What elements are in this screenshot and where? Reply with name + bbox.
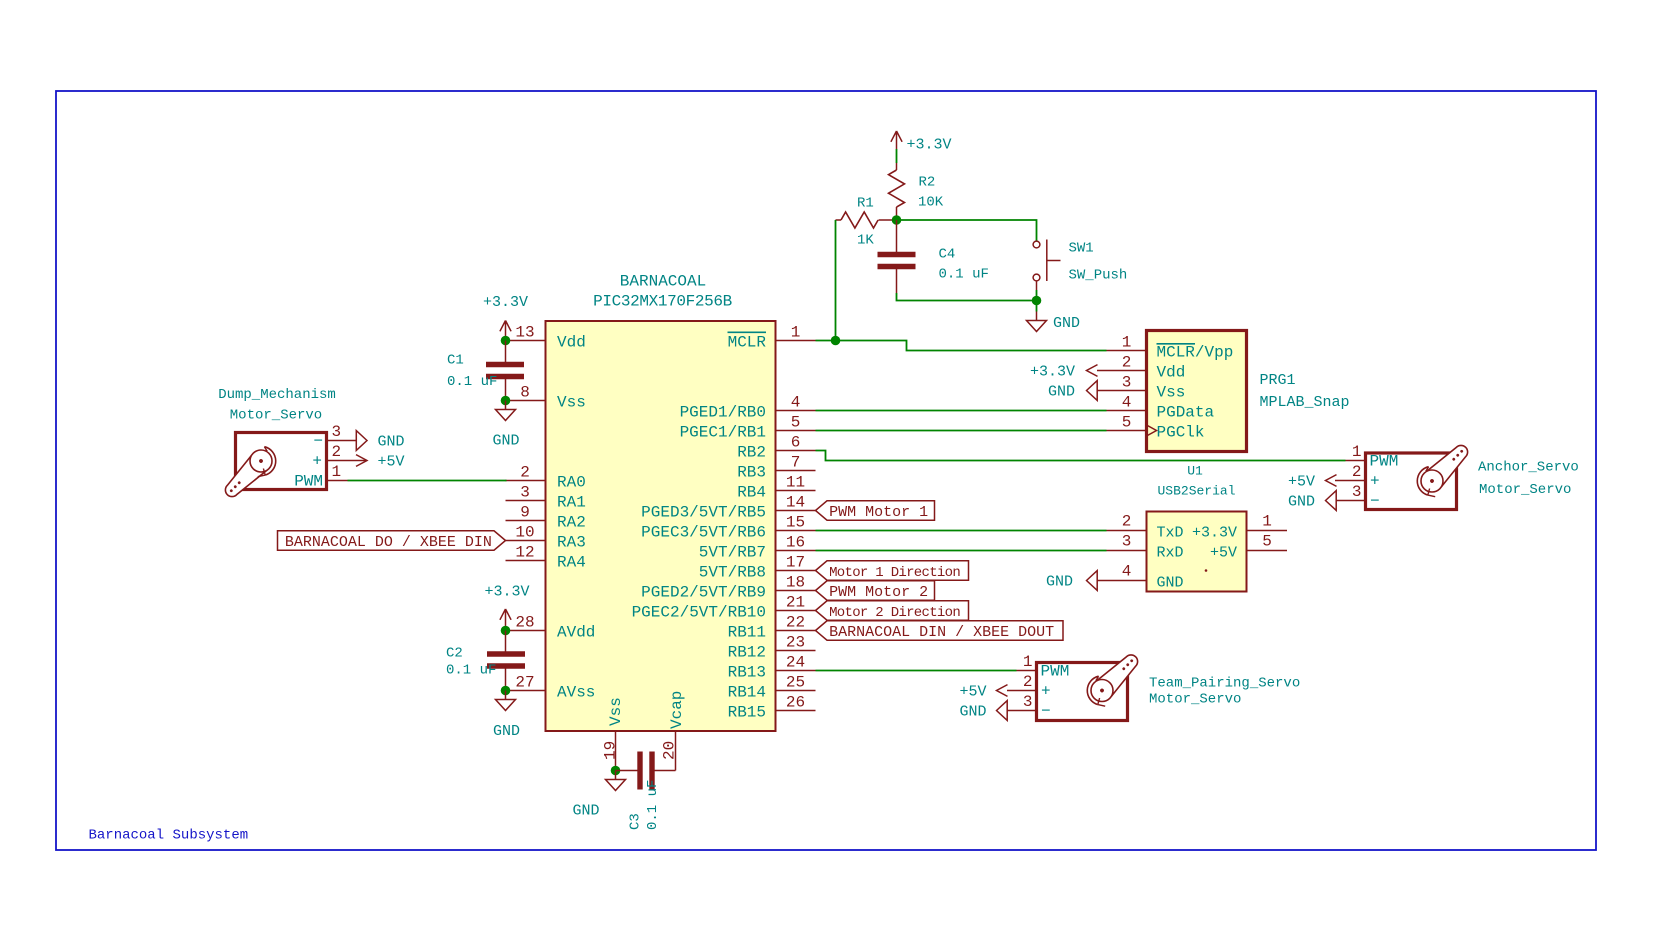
svg-text:PGData: PGData	[1157, 404, 1215, 422]
U1 pin 1 +3.3V	[1247, 530, 1287, 532]
svg-text:Team_Pairing_Servo: Team_Pairing_Servo	[1149, 676, 1300, 692]
svg-text:GND: GND	[572, 803, 599, 820]
svg-text:RB2: RB2	[737, 444, 766, 462]
svg-text:+5V: +5V	[378, 454, 405, 471]
svg-text:+3.3V: +3.3V	[907, 137, 952, 154]
svg-text:GND: GND	[1288, 494, 1315, 511]
capacitor C4 0.1uF	[896, 220, 898, 254]
svg-text:Vss: Vss	[607, 697, 625, 726]
svg-text:Anchor_Servo: Anchor_Servo	[1478, 460, 1579, 476]
hierarchical label PWM Motor 2	[816, 581, 935, 601]
pin 24 RB13	[776, 670, 816, 672]
svg-text:BARNACOAL: BARNACOAL	[620, 273, 706, 291]
svg-text:5: 5	[791, 414, 801, 432]
wire RB6 to TxD	[816, 530, 1107, 532]
svg-text:RB3: RB3	[737, 464, 766, 482]
svg-text:GND: GND	[959, 704, 986, 721]
svg-text:1: 1	[1262, 513, 1272, 531]
wire RB0 to PGData	[816, 410, 1107, 412]
connector PRG1 MPLAB_Snap body	[1147, 331, 1247, 452]
hierarchical label PWM Motor 1	[816, 501, 935, 521]
svg-text:−: −	[1041, 703, 1051, 721]
pin 28 AVdd	[506, 630, 546, 632]
svg-text:23: 23	[786, 634, 805, 652]
svg-text:C4: C4	[939, 247, 956, 263]
svg-text:GND: GND	[493, 723, 520, 740]
svg-text:11: 11	[786, 474, 805, 492]
svg-text:RB12: RB12	[728, 644, 766, 662]
svg-text:GND: GND	[1048, 384, 1075, 401]
pin 23 RB12	[776, 650, 816, 652]
svg-text:22: 22	[786, 614, 805, 632]
svg-text:3: 3	[520, 484, 530, 502]
svg-text:28: 28	[515, 614, 534, 632]
pin 16 5VT/RB7	[776, 550, 816, 552]
svg-text:3: 3	[1352, 483, 1362, 501]
pin 1 MCLR overbar	[728, 331, 767, 333]
U1 pin 3 RxD	[1107, 550, 1147, 552]
svg-text:Motor 2 Direction: Motor 2 Direction	[829, 605, 960, 621]
svg-text:RA2: RA2	[557, 514, 586, 532]
pin 20 Vcap (bottom)	[675, 731, 677, 771]
svg-text:Motor_Servo: Motor_Servo	[1149, 692, 1241, 708]
pin 3 - GND	[327, 440, 357, 442]
power flag +3.3V (R2)	[891, 131, 902, 149]
svg-text:PGClk: PGClk	[1157, 424, 1205, 442]
hierarchical label BARNACOAL DIN / XBEE DOUT	[816, 621, 1064, 641]
pin 12 RA4	[506, 560, 546, 562]
pin 9 RA2	[506, 520, 546, 522]
U1 pin 5 +5V	[1247, 550, 1287, 552]
svg-text:24: 24	[786, 654, 805, 672]
pin 8 Vss	[506, 400, 546, 402]
pin 1 MCLR	[776, 340, 816, 342]
svg-text:0.1 uF: 0.1 uF	[446, 663, 496, 679]
svg-text:Barnacoal Subsystem: Barnacoal Subsystem	[89, 828, 249, 844]
svg-text:R1: R1	[857, 196, 874, 212]
junction	[501, 336, 511, 346]
svg-text:17: 17	[786, 554, 805, 572]
svg-text:5: 5	[1262, 533, 1272, 551]
svg-text:2: 2	[1352, 463, 1362, 481]
svg-text:MCLR/Vpp: MCLR/Vpp	[1157, 344, 1234, 362]
junction	[892, 215, 902, 225]
wire	[505, 627, 507, 631]
svg-text:26: 26	[786, 694, 805, 712]
svg-text:RB15: RB15	[728, 704, 766, 722]
svg-text:USB2Serial: USB2Serial	[1157, 484, 1235, 499]
svg-text:3: 3	[1023, 693, 1033, 711]
svg-text:RA0: RA0	[557, 474, 586, 492]
junction	[501, 396, 511, 406]
svg-text:+3.3V: +3.3V	[1192, 525, 1237, 542]
svg-text:2: 2	[1023, 673, 1033, 691]
pin 22 RB11	[776, 630, 816, 632]
svg-text:PIC32MX170F256B: PIC32MX170F256B	[593, 293, 732, 311]
svg-text:1K: 1K	[857, 233, 874, 249]
wire node to SW1	[897, 220, 1037, 241]
svg-text:10: 10	[515, 524, 534, 542]
svg-text:3: 3	[1122, 374, 1132, 392]
PRG1 MCLR overbar	[1157, 343, 1196, 345]
svg-text:5: 5	[1122, 414, 1132, 432]
pin 7 RB3	[776, 470, 816, 472]
svg-text:PGED3/5VT/RB5: PGED3/5VT/RB5	[641, 504, 766, 522]
svg-text:RB13: RB13	[728, 664, 766, 682]
Team pin 2 + +5V	[1007, 690, 1037, 692]
pin 14 PGED3/5VT/RB5	[776, 510, 816, 512]
svg-text:SW_Push: SW_Push	[1069, 268, 1128, 284]
svg-text:PGED2/5VT/RB9: PGED2/5VT/RB9	[641, 584, 766, 602]
resistor R2 10K	[896, 163, 898, 170]
svg-text:5VT/RB8: 5VT/RB8	[699, 564, 766, 582]
ground (C3)	[606, 771, 626, 791]
svg-text:0.1 uF: 0.1 uF	[447, 374, 497, 390]
U1 pin 2 TxD	[1107, 530, 1147, 532]
svg-text:RB4: RB4	[737, 484, 766, 502]
svg-text:2: 2	[520, 464, 530, 482]
pin 2 RA0	[506, 480, 546, 482]
svg-text:MPLAB_Snap: MPLAB_Snap	[1260, 394, 1350, 411]
PRG1 pin 2 Vdd	[1097, 370, 1147, 372]
svg-text:Dump_Mechanism: Dump_Mechanism	[218, 387, 336, 403]
svg-text:C1: C1	[447, 353, 464, 369]
svg-text:10K: 10K	[918, 195, 944, 211]
junction	[501, 686, 511, 696]
svg-text:RB14: RB14	[728, 684, 766, 702]
svg-text:GND: GND	[492, 433, 519, 450]
svg-text:Vcap: Vcap	[668, 691, 686, 729]
svg-text:16: 16	[786, 534, 805, 552]
svg-text:1: 1	[1122, 334, 1132, 352]
ground (C1)	[496, 401, 516, 421]
svg-text:18: 18	[786, 574, 805, 592]
svg-text:MCLR: MCLR	[728, 334, 767, 352]
svg-text:GND: GND	[1046, 574, 1073, 591]
svg-text:6: 6	[791, 434, 801, 452]
pin 18 PGED2/5VT/RB9	[776, 590, 816, 592]
resistor R1 1K	[836, 219, 842, 221]
wire RB13 to Team_Pairing_Servo PWM	[816, 670, 1017, 672]
svg-text:GND: GND	[378, 434, 405, 451]
svg-text:0.1 uF: 0.1 uF	[939, 267, 989, 283]
capacitor C2	[505, 631, 507, 655]
pin 1 PWM	[327, 480, 348, 482]
svg-text:+5V: +5V	[959, 684, 986, 701]
svg-text:7: 7	[791, 454, 801, 472]
Anchor pin 2 + +5V	[1335, 480, 1366, 482]
svg-text:19: 19	[602, 741, 620, 760]
svg-text:+: +	[1370, 473, 1380, 491]
svg-text:C3: C3	[628, 813, 644, 830]
svg-text:PWM: PWM	[294, 473, 323, 491]
junction	[611, 766, 621, 776]
wire R1 to MCLR	[835, 220, 837, 341]
svg-text:2: 2	[332, 443, 342, 461]
pin 15 PGEC3/5VT/RB6	[776, 530, 816, 532]
svg-text:4: 4	[1122, 394, 1132, 412]
svg-text:Vdd: Vdd	[1157, 364, 1186, 382]
pin 21 PGEC2/5VT/RB10	[776, 610, 816, 612]
svg-text:C2: C2	[446, 646, 463, 662]
svg-text:14: 14	[786, 494, 805, 512]
svg-text:1: 1	[791, 324, 801, 342]
svg-text:−: −	[313, 433, 323, 451]
svg-text:25: 25	[786, 674, 805, 692]
svg-text:RA1: RA1	[557, 494, 586, 512]
svg-text:4: 4	[1122, 563, 1132, 581]
pin 27 AVss	[506, 690, 546, 692]
pin 6 RB2	[776, 450, 816, 452]
pin 10 RA3	[506, 540, 546, 542]
svg-text:GND: GND	[1053, 315, 1080, 332]
wire	[896, 149, 898, 163]
svg-text:PRG1: PRG1	[1260, 372, 1296, 389]
pin 25 RB14	[776, 690, 816, 692]
svg-text:PWM Motor 1: PWM Motor 1	[829, 504, 928, 521]
svg-text:SW1: SW1	[1069, 241, 1094, 257]
capacitor C3	[616, 770, 638, 772]
svg-text:PGEC2/5VT/RB10: PGEC2/5VT/RB10	[632, 604, 766, 622]
svg-text:RA4: RA4	[557, 554, 586, 572]
svg-text:8: 8	[520, 384, 530, 402]
svg-text:3: 3	[1122, 533, 1132, 551]
pin 5 PGEC1/RB1	[776, 430, 816, 432]
PRG1 pin 3 Vss	[1097, 390, 1147, 392]
wire	[505, 339, 507, 341]
svg-text:5VT/RB7: 5VT/RB7	[699, 544, 766, 562]
svg-text:AVdd: AVdd	[557, 624, 595, 642]
svg-text:+5V: +5V	[1288, 474, 1315, 491]
PRG1 pin 4 PGData	[1107, 410, 1147, 412]
svg-text:GND: GND	[1157, 575, 1184, 592]
svg-text:R2: R2	[919, 175, 936, 191]
svg-text:BARNACOAL DIN / XBEE DOUT: BARNACOAL DIN / XBEE DOUT	[829, 624, 1054, 641]
svg-text:BARNACOAL DO / XBEE DIN: BARNACOAL DO / XBEE DIN	[285, 534, 492, 551]
pin 4 PGED1/RB0	[776, 410, 816, 412]
power label +3.3V (PRG1)	[1087, 365, 1098, 377]
wire C4 to SW1 bottom	[897, 293, 1037, 301]
svg-text:PWM Motor 2: PWM Motor 2	[829, 584, 928, 601]
PRG1 pin 5 PGClk	[1107, 430, 1147, 432]
svg-text:4: 4	[791, 394, 801, 412]
svg-text:RA3: RA3	[557, 534, 586, 552]
svg-text:RxD: RxD	[1157, 545, 1184, 562]
ground (C2)	[496, 691, 516, 711]
svg-text:1: 1	[332, 463, 342, 481]
svg-text:PGEC3/5VT/RB6: PGEC3/5VT/RB6	[641, 524, 766, 542]
hierarchical label Motor 1 Direction	[816, 561, 969, 581]
svg-text:0.1 uF: 0.1 uF	[645, 780, 661, 830]
PRG1 pin 1 MCLR/Vpp	[1107, 350, 1147, 352]
ground (SW1)	[1036, 290, 1038, 312]
svg-text:12: 12	[515, 544, 534, 562]
svg-text:+: +	[1041, 683, 1051, 701]
svg-text:PGED1/RB0: PGED1/RB0	[680, 404, 766, 422]
pin 3 RA1	[506, 500, 546, 502]
Anchor pin 3 - GND	[1336, 500, 1366, 502]
servo M Team_Pairing_Servo Motor_Servo	[1037, 663, 1128, 721]
svg-text:RB11: RB11	[728, 624, 766, 642]
svg-text:2: 2	[1122, 513, 1132, 531]
svg-text:1: 1	[1023, 653, 1033, 671]
pin 13 Vdd	[506, 340, 546, 342]
capacitor C1	[505, 341, 507, 365]
wire RB2 to Anchor_Servo PWM	[816, 451, 1346, 461]
svg-text:21: 21	[786, 594, 805, 612]
hierarchical label BARNACOAL DO / XBEE DIN	[278, 531, 506, 551]
svg-text:+3.3V: +3.3V	[1030, 364, 1075, 381]
microcontroller U BARNACOAL PIC32MX170F256B body	[546, 321, 776, 731]
wire RB7 to RxD	[816, 550, 1107, 552]
wire RA0 to Dump PWM	[348, 480, 507, 482]
module U1 USB2Serial body	[1147, 512, 1247, 592]
svg-text:Motor 1 Direction: Motor 1 Direction	[829, 565, 960, 581]
svg-text:9: 9	[520, 504, 530, 522]
junction	[1032, 296, 1042, 306]
wire MCLR net	[816, 341, 1107, 351]
hierarchical label Motor 2 Direction	[816, 601, 969, 621]
svg-text:3: 3	[332, 423, 342, 441]
Team pin 1 PWM	[1017, 670, 1037, 672]
PRG1 pin 5 clock mark	[1147, 425, 1157, 436]
wire RB1 to PGClk	[816, 430, 1107, 432]
switch SW1 SW_Push	[1033, 241, 1040, 248]
svg-text:20: 20	[661, 741, 679, 760]
svg-text:Motor_Servo: Motor_Servo	[1479, 482, 1571, 498]
ground label GND (PRG1)	[1087, 381, 1098, 401]
U1 pin 4 GND	[1097, 580, 1147, 582]
svg-text:PGEC1/RB1: PGEC1/RB1	[680, 424, 766, 442]
svg-text:+3.3V: +3.3V	[483, 294, 528, 311]
svg-text:U1: U1	[1187, 464, 1203, 479]
pin 19 Vss (bottom)	[615, 731, 617, 771]
svg-text:−: −	[1370, 493, 1380, 511]
U1 symbol dot	[1205, 569, 1208, 572]
svg-text:+3.3V: +3.3V	[484, 584, 529, 601]
svg-text:Vdd: Vdd	[557, 334, 586, 352]
svg-text:2: 2	[1122, 354, 1132, 372]
junction	[501, 626, 511, 636]
svg-text:Motor_Servo: Motor_Servo	[230, 408, 322, 424]
svg-text:Vss: Vss	[1157, 384, 1186, 402]
sheet border Barnacoal Subsystem	[56, 91, 1596, 850]
pin 17 5VT/RB8	[776, 570, 816, 572]
svg-text:+5V: +5V	[1210, 545, 1237, 562]
pin 26 RB15	[776, 710, 816, 712]
svg-text:Vss: Vss	[557, 394, 586, 412]
svg-text:15: 15	[786, 514, 805, 532]
junction	[831, 336, 841, 346]
svg-text:PWM: PWM	[1041, 663, 1070, 681]
svg-text:TxD: TxD	[1157, 525, 1184, 542]
svg-text:AVss: AVss	[557, 684, 595, 702]
svg-text:27: 27	[515, 674, 534, 692]
pin 2 + +5V	[327, 460, 368, 462]
pin 11 RB4	[776, 490, 816, 492]
svg-text:13: 13	[515, 324, 534, 342]
Anchor pin 1 PWM	[1346, 460, 1366, 462]
svg-text:1: 1	[1352, 443, 1362, 461]
svg-text:+: +	[312, 453, 322, 471]
servo M Anchor_Servo Motor_Servo	[1366, 453, 1457, 510]
svg-text:PWM: PWM	[1370, 453, 1399, 471]
Team pin 3 - GND	[1007, 710, 1037, 712]
